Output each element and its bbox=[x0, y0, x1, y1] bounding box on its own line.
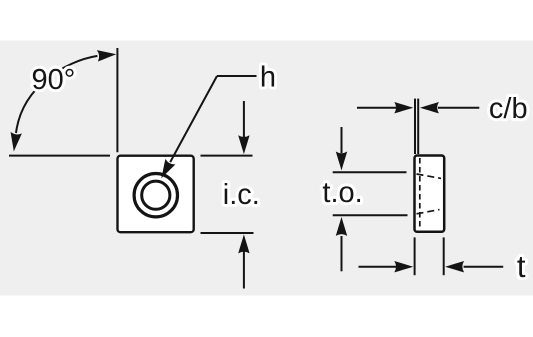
hole outer circle bbox=[134, 174, 177, 217]
svg-text:t.o.: t.o. bbox=[322, 177, 362, 209]
i.c. top extension line bbox=[201, 155, 253, 157]
90-degree arc bbox=[16, 56, 97, 133]
svg-text:h: h bbox=[260, 62, 276, 94]
t right extension line bbox=[443, 237, 445, 275]
c/b right extension line bbox=[417, 99, 419, 154]
svg-text:90°: 90° bbox=[32, 64, 76, 96]
svg-text:t: t bbox=[517, 249, 526, 284]
hole inner circle bbox=[142, 181, 170, 209]
background gray panel bbox=[0, 41, 533, 296]
t.o. bottom dimension arrow bbox=[341, 236, 343, 271]
insert side view rectangle bbox=[415, 156, 445, 232]
c/b left dimension arrow bbox=[357, 107, 396, 109]
svg-text:i.c.: i.c. bbox=[223, 179, 260, 211]
t left extension line bbox=[414, 237, 416, 275]
i.c. bottom dimension arrow bbox=[243, 250, 245, 289]
t left dimension arrow bbox=[359, 266, 397, 268]
hidden hole dashed vertical line bbox=[419, 158, 421, 229]
90-degree vertical extension line bbox=[116, 48, 118, 152]
i.c. top dimension arrow bbox=[243, 101, 245, 137]
hidden hole dashed top line bbox=[417, 174, 442, 178]
c/b left extension line bbox=[414, 99, 416, 154]
c/b right dimension arrow bbox=[438, 107, 479, 109]
arc arrowhead bottom (points down at horizontal line) bbox=[8, 132, 22, 152]
i.c. bottom extension line bbox=[201, 232, 254, 234]
t.o. bottom extension line bbox=[333, 214, 408, 216]
t.o. top dimension arrow bbox=[341, 127, 343, 153]
insert front view square bbox=[118, 156, 194, 233]
h leader diagonal segment bbox=[170, 76, 217, 162]
90-degree horizontal extension line bbox=[9, 155, 110, 157]
hidden hole dashed bottom line bbox=[417, 210, 440, 214]
h leader horizontal segment bbox=[217, 75, 257, 77]
t.o. top extension line bbox=[333, 171, 407, 173]
t right dimension arrow bbox=[464, 266, 504, 268]
svg-text:c/b: c/b bbox=[489, 93, 528, 125]
arc arrowhead top (points right at vertical line) bbox=[97, 49, 117, 62]
h leader arrowhead bbox=[156, 159, 175, 181]
